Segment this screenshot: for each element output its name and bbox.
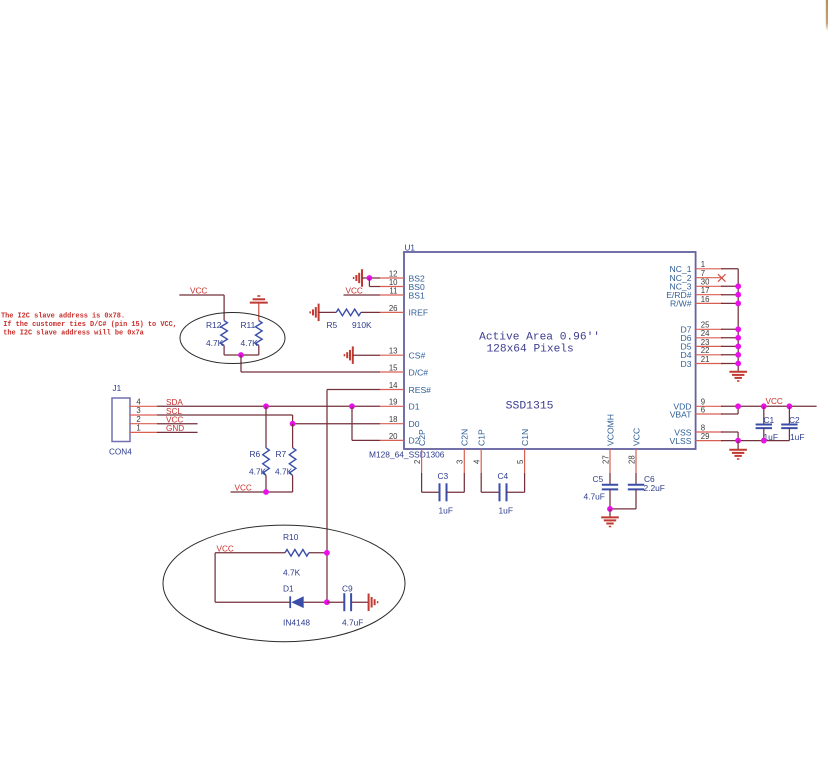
svg-text:VCC: VCC [631,428,641,446]
wire SCL to D0 [293,423,380,425]
svg-text:C2P: C2P [417,429,427,446]
junction D6/bus [735,335,741,341]
svg-text:VCC: VCC [235,483,252,492]
wire D6 to bus [721,337,738,339]
U1 right pin 17 E/RD# stub [696,294,723,296]
junction D5/bus [735,344,741,350]
R10 label [283,532,299,542]
svg-text:C4: C4 [498,471,509,481]
R11 value 4.7K [241,338,259,348]
pin number 18 [389,415,398,424]
capacitor C2 [781,406,797,440]
wire junction down to D/C# [241,355,380,372]
junction BS2/BS0 [367,275,373,281]
svg-text:128x64 Pixels: 128x64 Pixels [486,343,573,355]
U1 right pin 23 D5 stub [696,345,723,347]
svg-text:4.7K: 4.7K [275,466,293,476]
svg-text:28: 28 [627,455,636,464]
pin name CS# [409,351,426,361]
junction E/RD#/bus [735,292,741,298]
svg-text:2: 2 [136,415,140,424]
pin number 28 [627,455,636,464]
wire R12/R11 bottoms joined [224,345,259,355]
ground at R5 [310,304,318,322]
wire D5 to bus [721,345,738,347]
svg-text:SSD1315: SSD1315 [506,401,554,413]
pin number 4 [473,459,482,464]
svg-text:6: 6 [701,405,705,414]
resistor R5 [336,309,361,316]
capacitor C9 [344,593,351,611]
svg-text:4.7uF: 4.7uF [342,617,363,627]
R5 value 910K [352,320,372,330]
svg-text:16: 16 [701,295,710,304]
svg-text:4.7uF: 4.7uF [584,492,605,502]
svg-text:D0: D0 [409,419,420,429]
pin name VDD [673,402,691,412]
U1 right pin 1 NC_1 stub [696,268,723,270]
svg-text:C2N: C2N [460,429,470,446]
C3 label [438,471,449,481]
svg-text:5: 5 [516,459,525,464]
CON4 label [109,448,132,457]
U1 inner text Active Area [479,331,600,355]
pin number 7 [701,269,705,278]
pin name D1 [409,402,420,412]
pin name VCC [631,428,641,446]
net label SDA [166,398,183,407]
capacitor C6 [628,473,644,509]
U1 left pin 14 RES# stub [380,389,404,391]
wire node to C9 [327,601,344,603]
U1 right pin 16 R/W# stub [696,302,723,304]
svg-text:If the customer ties D/C# (pin: If the customer ties D/C# (pin 15) to VC… [3,321,177,329]
U1 right pin 25 D7 stub [696,328,723,330]
no-connect X on NC_2 [718,274,726,282]
svg-text:R10: R10 [283,532,299,542]
R7 label [276,449,287,459]
svg-text:the I2C slave address will be: the I2C slave address will be 0x7a [3,330,144,338]
wire diode to node [304,601,327,603]
pin name VCOMH [605,414,615,446]
U1 left pin 13 CS# stub [380,354,404,356]
U1 right pin 8 VSS stub [696,431,723,433]
wire ground lead VSS [737,441,739,450]
junction D3/bus [735,361,741,367]
U1 bottom pin 5 C1N stub [524,449,526,473]
junction VCC/C1 [761,403,767,409]
svg-text:VBAT: VBAT [670,409,693,419]
svg-text:4: 4 [136,398,141,407]
junction D1/C9/RES# [324,599,330,605]
wire VCC to R6/R7 bottoms [231,475,293,492]
pin name C1P [477,429,487,446]
pin name VSS [674,427,691,437]
svg-text:2.2uF: 2.2uF [644,483,665,493]
pin number 22 [701,346,710,355]
pin name D5 [681,342,692,352]
pin number 1 [701,260,705,269]
U1 left pin 12 BS2 stub [380,277,404,279]
junction D7/bus [735,326,741,332]
C5 label [593,474,604,484]
svg-text:IN4148: IN4148 [283,617,310,627]
net VCC label at R10 [217,544,234,553]
R7 value 4.7K [275,466,293,476]
svg-text:1: 1 [701,260,705,269]
ground at BS2 [354,269,362,287]
junction R10/RES# [324,550,330,556]
pin number 2 [413,460,422,464]
pin name C2N [460,429,470,446]
resistor R12 [221,321,228,346]
U1 left pin 20 D2 stub [380,439,404,441]
U1 right pin 24 D6 stub [696,337,723,339]
R12 label [206,320,222,330]
J1 pin 4 stub [130,405,157,407]
wire RES# to reset circuit [327,390,380,603]
svg-text:C1: C1 [764,415,775,425]
C6 value 2.2uF [644,483,665,493]
pin number 6 [701,405,705,414]
U1 left pin 15 D/C# stub [380,371,404,373]
R12 value 4.7K [206,338,224,348]
wire VCC to R10 [215,552,285,554]
svg-text:C9: C9 [342,584,353,594]
svg-text:RES#: RES# [409,385,432,395]
svg-text:1: 1 [136,424,140,433]
svg-text:CON4: CON4 [109,448,132,457]
C1 value 1uF [764,432,778,442]
pin number 9 [701,398,705,407]
R10 value 4.7K [283,568,301,578]
svg-text:C2: C2 [789,415,800,425]
ground at CS# [344,346,352,364]
svg-text:BS1: BS1 [409,290,425,300]
wire R7 top lead [292,424,294,448]
svg-text:18: 18 [389,415,398,424]
C4 label [498,471,509,481]
svg-text:4.7K: 4.7K [206,338,224,348]
wire D4 to bus [721,354,738,356]
svg-text:14: 14 [389,381,398,390]
pin number 12 [389,269,398,278]
svg-text:VCC: VCC [346,287,363,296]
junction SDA branch to D2 [349,403,355,409]
svg-text:VCC: VCC [190,287,207,296]
svg-text:910K: 910K [352,320,372,330]
svg-text:R7: R7 [276,449,287,459]
svg-text:21: 21 [701,355,710,364]
svg-text:M128_64_SSD1306: M128_64_SSD1306 [369,450,445,460]
junction VDD/VBAT [735,403,741,409]
U1 left pin 18 D0 stub [380,423,404,425]
C2 value 1uF [790,432,804,442]
net label GND [166,424,184,433]
pin number 16 [701,295,710,304]
wire VLSS rail [721,440,789,442]
C6 label [644,474,655,484]
svg-text:Active Area 0.96'': Active Area 0.96'' [479,331,600,343]
wire E/RD# to bus [721,294,738,296]
U1 reference designator [405,244,416,253]
U1 right pin 30 NC_3 stub [696,285,723,287]
wire C6 to C5 ground [610,508,636,510]
D1 label [283,584,294,594]
wire BS2 to ground [362,277,380,279]
J1 pin 2 stub [130,423,157,425]
svg-text:R5: R5 [327,320,338,330]
svg-text:R11: R11 [241,320,256,330]
U1 bottom pin 3 C2N stub [463,449,465,473]
wire R5 to IREF [361,311,380,313]
junction VLSS/C1 [761,438,767,444]
pin number 3 [456,460,465,464]
svg-text:13: 13 [389,347,398,356]
C4 value 1uF [499,505,513,515]
U1 footprint label M128_64_SSD1306 [369,450,445,460]
wire R6 top lead [265,406,267,448]
U1 bottom pin 27 VCOMH stub [609,449,611,473]
svg-text:D3: D3 [681,359,692,369]
wire NC_3 to bus [721,285,738,287]
pin name E/RD# [666,290,692,300]
pin number 14 [389,381,398,390]
C9 label [342,584,353,594]
U1 right pin 29 VLSS stub [696,440,723,442]
svg-text:IREF: IREF [409,308,429,318]
svg-text:C1N: C1N [520,429,530,446]
wire NC_1 to bus [721,268,738,270]
wire R10 to RES# node [309,552,327,554]
U1 right pin 6 VBAT stub [696,413,723,415]
pin name VLSS [670,436,692,446]
pin name VBAT [670,409,693,419]
pin name IREF [409,308,429,318]
svg-text:4.7K: 4.7K [283,568,301,578]
J1 pin 1 stub [130,431,157,433]
svg-text:C3: C3 [438,471,449,481]
U1 right pin 7 NC_2 stub [696,277,723,279]
pin name RES# [409,385,432,395]
U1 right pin 9 VDD stub [696,405,723,407]
svg-text:1uF: 1uF [439,505,453,515]
pin name R/W# [670,299,692,309]
pin name D4 [681,350,692,360]
capacitor C1 [756,406,772,440]
U1 left pin 26 IREF stub [380,311,404,313]
junction NC_3/bus [735,283,741,289]
J1 pin number 4 [136,398,141,407]
wire VCC rail [721,405,817,407]
resistor R11 [256,321,263,346]
pin number 25 [701,321,710,330]
U1 left pin 10 BS0 stub [380,286,404,288]
svg-text:J1: J1 [113,384,122,393]
resistor R6 [263,448,270,476]
svg-text:3: 3 [456,460,465,464]
U1 right pin 21 D3 stub [696,363,723,365]
U1 bottom pin 4 C1P stub [480,449,482,473]
pin name NC_2 [670,273,692,283]
R6 label [250,449,261,459]
svg-text:4.7K: 4.7K [241,338,259,348]
svg-text:26: 26 [389,304,398,313]
resistor R7 [289,448,296,476]
ground at C5/C6 [601,517,619,526]
svg-text:C5: C5 [593,474,604,484]
pin name D/C# [409,367,429,377]
R6 value 4.7K [249,466,267,476]
svg-text:27: 27 [601,455,610,464]
IC U1 SSD1315 body [404,252,696,449]
wire NC bus vertical [737,269,739,372]
pin name BS1 [409,290,425,300]
net VCC label at R6/R7 [235,483,252,492]
pin number 24 [701,329,710,338]
wire C9 to ground [351,601,369,603]
wire VCC down to diode [215,553,290,602]
pin name D7 [681,325,692,335]
wire GND stub from J1 [157,431,198,433]
svg-text:R6: R6 [250,449,261,459]
svg-text:1uF: 1uF [499,505,513,515]
C5 value 4.7uF [584,492,605,502]
U1 left pin 19 D1 stub [380,405,404,407]
svg-text:1uF: 1uF [790,432,804,442]
pin number 13 [389,347,398,356]
svg-text:U1: U1 [405,244,416,253]
wire ground to R11 [258,303,260,321]
C3 value 1uF [439,505,453,515]
wire CS# to ground [353,354,380,356]
C2 label [789,415,800,425]
wire SCL net [157,415,293,424]
pin number 10 [389,278,398,287]
net VCC label top-left [190,287,207,296]
svg-text:2: 2 [413,460,422,464]
J1 pin number 1 [136,424,140,433]
R5 label [327,320,338,330]
wire SDA branch to D2 [352,406,380,440]
ground at NC/data bus [729,372,747,381]
U1 right pin 22 D4 stub [696,354,723,356]
capacitor C4 [481,473,524,501]
pin name D0 [409,419,420,429]
pin name D2 [409,436,420,446]
J1 pin number 3 [136,406,140,415]
junction R/W#/bus [735,301,741,307]
junction D4/bus [735,352,741,358]
ground at VSS/VLSS [729,450,747,459]
connector J1 body [112,398,130,442]
pin number 17 [701,286,710,295]
net label SCL [166,407,182,416]
wire R/W# to bus [721,302,738,304]
wire ground lead C5 [609,509,611,517]
diode D1 IN4148 [290,596,304,608]
svg-text:VCOMH: VCOMH [605,414,615,446]
pin number 30 [701,278,710,287]
wire D3 to bus [721,363,738,365]
ellipse highlight around R12/R11 [180,313,285,364]
pin name BS2 [409,273,425,283]
wire D7 to bus [721,328,738,330]
pin number 29 [701,432,710,441]
ground above R11 [250,296,268,303]
J1 pin number 2 [136,415,140,424]
svg-text:4: 4 [473,459,482,464]
svg-text:D1: D1 [283,584,294,594]
pin number 26 [389,304,398,313]
svg-text:D/C#: D/C# [409,367,429,377]
svg-text:11: 11 [389,286,397,295]
pin number 19 [389,398,398,407]
svg-text:CS#: CS# [409,351,426,361]
svg-text:R/W#: R/W# [670,299,692,309]
svg-text:VLSS: VLSS [670,436,692,446]
svg-text:VCC: VCC [766,397,783,406]
pin number 15 [389,363,398,372]
wire ground to R5 [319,311,337,313]
pin number 5 [516,459,525,464]
junction C5/C6 ground [607,506,613,512]
junction VSS/VLSS [735,438,741,444]
pin name C1N [520,429,530,446]
pin name D3 [681,359,692,369]
pin number 11 [389,286,397,295]
D1 value IN4148 [283,617,310,627]
capacitor C3 [422,473,465,501]
svg-text:R12: R12 [206,320,222,330]
wire VSS join [721,432,738,441]
wire BS0 branch [369,278,380,287]
pin number 21 [701,355,710,364]
wire BS1 to VCC [344,294,381,296]
svg-text:4.7K: 4.7K [249,466,267,476]
wire VBAT join [721,406,738,414]
svg-text:VCC: VCC [217,544,234,553]
svg-text:20: 20 [389,432,398,441]
net VCC label right [766,397,783,406]
wire SDA net [157,405,380,407]
junction SDA/R6 [263,403,269,409]
wire VCC stub from J1 [157,423,198,425]
pin name NC_1 [670,264,692,274]
pin number 8 [701,423,705,432]
net label VCC [166,416,183,425]
ellipse highlight reset circuit [163,525,405,642]
svg-text:The I2C slave address is 0x78.: The I2C slave address is 0x78. [1,312,125,320]
note text I2C address [1,312,177,337]
resistor R10 [285,550,309,557]
capacitor C5 [602,473,618,509]
pin name D6 [681,333,692,343]
svg-text:22: 22 [701,346,710,355]
svg-text:15: 15 [389,363,398,372]
wire VCC to R12 [179,295,224,321]
pin number 20 [389,432,398,441]
J1 pin 3 stub [130,414,157,416]
svg-text:17: 17 [701,286,710,295]
C9 value 4.7uF [342,617,363,627]
pin number 23 [701,338,710,347]
pin number 27 [601,455,610,464]
U1 bottom pin 2 C2P stub [421,449,423,473]
ground at C9 [369,594,378,612]
J1 label [113,384,122,393]
junction SCL/R7 [290,421,296,427]
